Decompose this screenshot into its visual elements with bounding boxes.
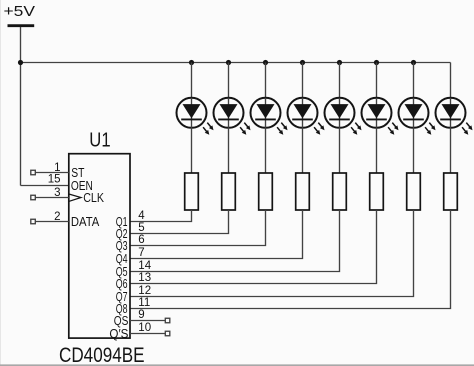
wire QS stub	[130, 319, 165, 321]
wire R7 to Q7 net	[130, 210, 414, 297]
wire LED3 cathode to R3	[265, 128, 267, 173]
LED LED8	[436, 98, 473, 135]
wire CLK pin	[35, 196, 69, 198]
svg-text:6: 6	[138, 234, 144, 246]
resistor R5	[333, 173, 347, 210]
svg-text:Q4: Q4	[116, 252, 128, 266]
wire +5V horizontal rail	[21, 61, 451, 63]
junction at +5V rail left	[18, 60, 23, 65]
wire R6 to Q6 net	[130, 210, 377, 284]
terminal square QS	[165, 318, 170, 323]
wire R1 to Q1 net	[130, 210, 192, 222]
wire LED4 cathode to R4	[302, 128, 304, 173]
LED LED6	[362, 98, 399, 135]
wire R2 to Q2 net	[130, 210, 229, 234]
LED LED5	[325, 98, 362, 135]
wire rail to LED4 anode	[302, 63, 304, 100]
resistor R3	[259, 173, 273, 210]
power +5V rail bar	[8, 24, 35, 27]
wire LED6 cathode to R6	[376, 128, 378, 173]
svg-text:2: 2	[54, 211, 60, 223]
LED LED3	[251, 98, 288, 135]
svg-text:QS: QS	[114, 314, 129, 328]
resistor R8	[444, 173, 458, 210]
junction rail-LED2	[226, 60, 231, 65]
svg-text:14: 14	[138, 260, 151, 272]
junction rail-LED1	[189, 60, 194, 65]
wire rail to LED2 anode	[228, 62, 230, 99]
junction rail-LED5	[337, 60, 342, 65]
wire R5 to Q5 net	[130, 210, 340, 272]
wire +5V vertical from bar to OEN bend	[19, 27, 21, 186]
wire DATA pin	[35, 220, 69, 222]
terminal square DATA	[31, 219, 36, 224]
LED LED1	[177, 98, 214, 135]
resistor R6	[370, 173, 384, 210]
svg-text:+5V: +5V	[4, 4, 36, 20]
svg-text:DATA: DATA	[71, 214, 100, 229]
wire rail to LED6 anode	[376, 63, 378, 100]
svg-text:Q3: Q3	[116, 239, 128, 253]
wire rail to LED7 anode	[413, 63, 415, 100]
wire LED1 cathode to R1	[191, 128, 193, 173]
terminal square CLK	[31, 195, 36, 200]
svg-text:1: 1	[54, 162, 60, 174]
svg-text:7: 7	[138, 247, 144, 259]
wire LED5 cathode to R5	[339, 128, 341, 173]
svg-text:Q6: Q6	[116, 277, 128, 291]
svg-text:CLK: CLK	[83, 190, 104, 205]
svg-text:9: 9	[138, 309, 144, 321]
resistor R7	[407, 173, 421, 210]
svg-text:11: 11	[138, 297, 150, 309]
svg-text:13: 13	[138, 272, 151, 284]
svg-text:U1: U1	[89, 129, 110, 151]
svg-text:10: 10	[138, 322, 151, 334]
svg-text:4: 4	[138, 210, 145, 222]
junction rail-LED4	[300, 60, 305, 65]
junction rail-LED6	[374, 60, 379, 65]
wire rail to LED3 anode	[265, 63, 267, 100]
wire LED7 cathode to R7	[413, 128, 415, 173]
wire R4 to Q4 net	[130, 210, 303, 259]
LED LED2	[214, 98, 251, 135]
terminal square ST	[31, 170, 36, 175]
LED LED7	[399, 98, 436, 135]
svg-text:CD4094BE: CD4094BE	[59, 344, 145, 366]
junction rail-LED7	[411, 60, 416, 65]
svg-text:5: 5	[138, 222, 144, 234]
junction rail-LED3	[263, 60, 268, 65]
terminal square Q'S	[165, 331, 170, 336]
resistor R2	[222, 173, 236, 210]
svg-text:15: 15	[48, 174, 61, 186]
wire R8 to Q8 net	[130, 210, 451, 309]
wire rail to LED1 anode	[191, 62, 193, 99]
resistor R1	[185, 173, 199, 210]
op IC U1 body	[69, 154, 130, 338]
wire rail to LED5 anode	[339, 63, 341, 100]
svg-text:Q′S: Q′S	[109, 327, 128, 341]
svg-text:3: 3	[54, 187, 60, 199]
wire LED2 cathode to R2	[228, 128, 230, 173]
wire LED8 cathode to R8	[450, 128, 452, 173]
resistor R4	[296, 173, 310, 210]
svg-text:12: 12	[138, 285, 151, 297]
LED LED4	[288, 98, 325, 135]
wire +5V to OEN pin	[20, 184, 68, 186]
wire ST pin	[35, 171, 69, 173]
wire Q'S stub	[130, 332, 165, 334]
wire R3 to Q3 net	[130, 210, 266, 246]
wire rail to LED8 anode	[450, 63, 452, 100]
clock symbol at CLK pin	[69, 194, 81, 201]
